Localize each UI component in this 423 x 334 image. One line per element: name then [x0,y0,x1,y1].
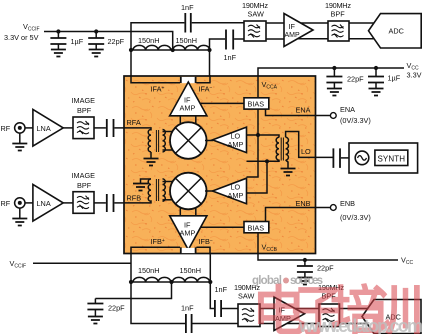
capacitor C7 (series, RFA) [107,119,114,137]
junction dot rail mid [171,48,175,52]
svg-text:3.3V or 5V: 3.3V or 5V [4,33,39,42]
ground under C1 [51,50,66,57]
transformer T1 secondary coil [163,130,166,152]
svg-text:ENB: ENB [296,199,311,208]
wire SAW-B to IFampB lower [260,323,275,325]
svg-text:RF: RF [1,124,11,133]
svg-text:LO: LO [301,147,311,156]
svg-text:150nH: 150nH [138,266,160,275]
svg-text:1nF: 1nF [181,3,194,12]
ground under C6 [369,89,384,96]
terminal ENB [330,205,336,211]
capacitor C2 22pF [88,32,104,50]
wire C4 to SAW-A [234,38,245,40]
transformer T1 primary coil [148,130,151,152]
junction dot at C2 [94,29,98,33]
op-amp U1B IF AMP (down) [170,216,207,250]
wire IFamp to BPF upper [299,22,328,24]
svg-text:AMP: AMP [285,32,301,39]
transformer T2 core [156,179,158,201]
wire BPF-B to C8 [94,202,106,204]
capacitor C3 1nF (bridge) [185,13,191,33]
wire C13 to SYNTH [341,157,349,159]
wire C8 to RFB pin [114,202,125,204]
mixer M1 [170,122,207,159]
transformer T2 primary coil [148,179,151,201]
wire VCCA feed into BIAS A [257,75,259,98]
svg-text:22pF: 22pF [317,264,334,273]
wire ENB [266,208,331,222]
wire rail L1-L2 [131,49,210,51]
svg-text:BPF: BPF [77,106,92,115]
svg-text:BPF: BPF [331,10,346,19]
wire J2 to LNA-B [25,202,34,204]
wire LNA-B to IMAGE BPF B [63,202,74,204]
transformer T1 core [156,130,158,152]
junction dot rail right [207,48,211,52]
junction dot rail left [129,48,133,52]
wire C11 to SAW-B [193,323,240,325]
svg-text:(0V/3.3V): (0V/3.3V) [340,213,371,222]
capacitor C4 1nF (series to SAW-A) [226,30,233,50]
svg-text:www.edatop.com: www.edatop.com [298,316,423,334]
junction dot LO node 2 [265,159,269,163]
svg-text:ADC: ADC [389,27,404,36]
svg-text:1nF: 1nF [224,53,237,62]
node VCC 3.3V (top right) [407,61,422,80]
wire top IFA+ riser [131,23,184,76]
capacitor C11 1nF (series lower) [186,314,192,333]
svg-text:IMAGE: IMAGE [72,96,96,105]
ground above T2 primary [133,179,151,191]
node VCCIF (top supply label) [4,22,40,42]
svg-text:LNA: LNA [37,124,51,133]
wire LO node1 down to LOampB [247,135,259,177]
terminal ENA [330,113,336,119]
white notch at IFB pins [182,248,196,253]
wire IFA- interior [196,75,210,83]
op-amp U4 IF AMP (bottom chain) [274,297,305,331]
block BIAS A [244,98,269,109]
wire T2 secondary to mixer B bottom [163,199,177,201]
pin stub IFB- [195,247,197,253]
inductor L1 150nH [133,45,171,50]
ground under J2 [12,208,27,225]
svg-text:3.3V: 3.3V [407,71,422,80]
connector J1 RF-A [15,123,25,133]
capacitor C13 (series LO) [333,148,340,168]
filter FL5 190MHz SAW box (bottom) [238,304,260,327]
svg-text:ENA: ENA [340,105,355,114]
svg-text:22pF: 22pF [108,37,125,46]
wire IFB- riser bottom [210,255,214,309]
wire IFB+ interior [131,247,180,254]
wire LO primary to LO pin [286,132,316,158]
wire mixer B to IF amp B stubs [180,206,196,216]
wire T2 secondary to mixer B top [163,181,177,183]
block SYNTH [349,143,418,173]
wire LOampA upper to LO transformer [247,135,280,138]
wire RFB interior [124,200,151,203]
wire BPF to ADC upper [349,22,377,24]
svg-text:AMP: AMP [228,140,244,149]
mixer M2 [170,173,207,210]
wire LOampA apex to mixer A [205,140,213,142]
wire J1 to LNA-A [25,127,34,129]
svg-text:SYNTH: SYNTH [378,155,406,164]
svg-text:AMP: AMP [228,191,244,200]
capacitor C10 22pF (bottom left) [87,299,103,317]
junction dot rail right (bottom) [208,280,212,284]
capacitor C6 1uF [368,68,384,89]
capacitor C5 22pF [326,68,342,89]
svg-text:RFA: RFA [127,118,141,127]
capacitor C12 1nF (series upper) [215,300,221,317]
ground under C2 [89,50,104,57]
wire RFA interior [124,128,151,131]
junction dot at C1 [56,29,60,33]
wire SAW-A to IFamp lower [266,38,284,40]
svg-text:1nF: 1nF [181,304,194,313]
svg-text:150nH: 150nH [138,36,160,45]
block BIAS B [244,222,269,233]
wire IFampB to BPF-B upper [293,308,319,310]
svg-text:ENA: ENA [296,106,311,115]
amplifier LNA-B [33,184,63,221]
wire T1 secondary to mixer A top [163,131,177,133]
junction dot C5 [332,66,336,70]
wire IFamp to BPF lower [296,38,328,40]
transformer T2 secondary coil [163,179,166,201]
wire LOampB apex to mixer B [205,190,213,192]
inductor L4 150nH [173,277,210,282]
svg-text:IMAGE: IMAGE [72,171,96,180]
wire cap to SAW-A [192,22,245,24]
wire LNA-A to IMAGE BPF A [63,127,74,129]
svg-text:1nF: 1nF [215,285,228,294]
svg-text:AMP: AMP [180,229,196,238]
ground under J1 [12,133,27,150]
ADC block (top) [369,14,422,48]
wire IFampB to BIAS B [201,226,246,228]
wire IFB+ riser bottom [131,255,185,324]
svg-text:BIAS: BIAS [248,223,265,232]
white notch at IFA pins [182,77,196,83]
op-amp U3A LO AMP [213,127,247,153]
junction dot LO node 1 [256,133,260,137]
junction dot rail left (bottom) [129,280,133,284]
wire IFampA to BIAS A [201,102,246,104]
amplifier LNA-A [33,109,63,146]
IC block LT5578 (orange die) [124,76,316,254]
wire ENA [266,109,331,115]
capacitor C9 22pF (bottom right) [297,260,313,278]
wire BPF to ADC lower [349,38,377,40]
capacitor C8 (series, RFB) [107,194,114,212]
transformer T3 secondary coil (LO) [276,137,279,160]
ground under C9 [297,278,312,285]
svg-text:22pF: 22pF [347,75,364,84]
svg-text:22pF: 22pF [108,304,125,313]
svg-text:1µF: 1µF [71,37,84,46]
wire LOampA lower to LO transformer [247,160,280,162]
ADC block (bottom) [362,300,421,334]
wire BPF-B to ADC-B upper [340,308,370,310]
filter FL3 IMAGE BPF A [73,117,94,139]
inductor L3 150nH [133,277,171,282]
svg-text:150nH: 150nH [180,266,202,275]
ground under T3 primary [281,160,296,176]
op-amp U2 IF AMP (top chain) [284,14,313,47]
wire mixer A to IF amp A stubs [180,116,196,126]
filter FL4 IMAGE BPF B [73,192,94,214]
wire IFampB to BPF-B lower [285,323,319,325]
svg-text:1µF: 1µF [388,74,401,83]
wire rail L3-L4 [131,281,210,283]
svg-text:ENB: ENB [340,199,355,208]
svg-text:BPF: BPF [77,181,92,190]
connector J2 RF-B [15,198,25,208]
pin stub IFA+ [180,77,182,83]
wire LO node2 down to LOampB [247,161,268,193]
svg-text:IF: IF [289,22,296,31]
wire BIAS A down to LO node [257,109,259,135]
op-amp U1A IF AMP (up) [170,82,207,116]
wire BPF-A to C7 [94,127,106,129]
wire rail mid to C10 [95,282,171,299]
filter FL1 190MHz SAW box [244,21,266,41]
wire IFA- riser [210,39,226,76]
ground under C5 [327,89,342,96]
svg-text:AMP: AMP [180,104,196,113]
svg-text:(0V/3.3V): (0V/3.3V) [340,116,371,125]
transformer T3 core [281,138,283,161]
svg-text:LNA: LNA [37,199,51,208]
wire IFA+ interior [131,75,180,83]
junction dot rail mid (bottom) [169,280,173,284]
svg-text:150nH: 150nH [176,36,198,45]
wire VCCB feed [258,233,398,260]
capacitor C1 1uF [50,32,66,50]
svg-text:RFB: RFB [127,194,142,203]
wire T1 secondary to mixer A bottom [163,149,177,151]
wire C7 to RFA pin [114,127,125,129]
svg-text:RF: RF [1,199,11,208]
wire VCCIF-B [33,262,131,264]
inductor L2 150nH [173,45,210,50]
op-amp U3B LO AMP [213,178,247,204]
pin stub IFB+ [180,247,182,253]
filter FL6 190MHz BPF box (bottom) [319,304,340,327]
junction dot C6 [374,66,378,70]
ground under T1 primary [144,152,159,166]
pin stub IFA- [195,77,197,83]
filter FL2 190MHz BPF box [328,21,349,41]
ground under C10 [88,317,103,324]
transformer T3 primary coil (LO) [286,137,289,160]
wire SAW-B to IFampB upper [260,308,275,310]
wire VCC top rail [258,68,404,76]
wire SAW-A to IFamp upper [266,22,284,24]
watermark global sources [252,275,323,287]
wire IFB- interior [196,247,210,254]
junction dot VCC bottom [303,258,307,262]
wire BPF-B to ADC-B lower [340,323,370,325]
wire LO pin to C13 [316,156,333,158]
wire VCCIF-A rail [44,32,173,51]
svg-text:SAW: SAW [248,10,264,19]
wire C12 to SAW-B [222,308,239,310]
svg-text:BIAS: BIAS [248,100,265,109]
